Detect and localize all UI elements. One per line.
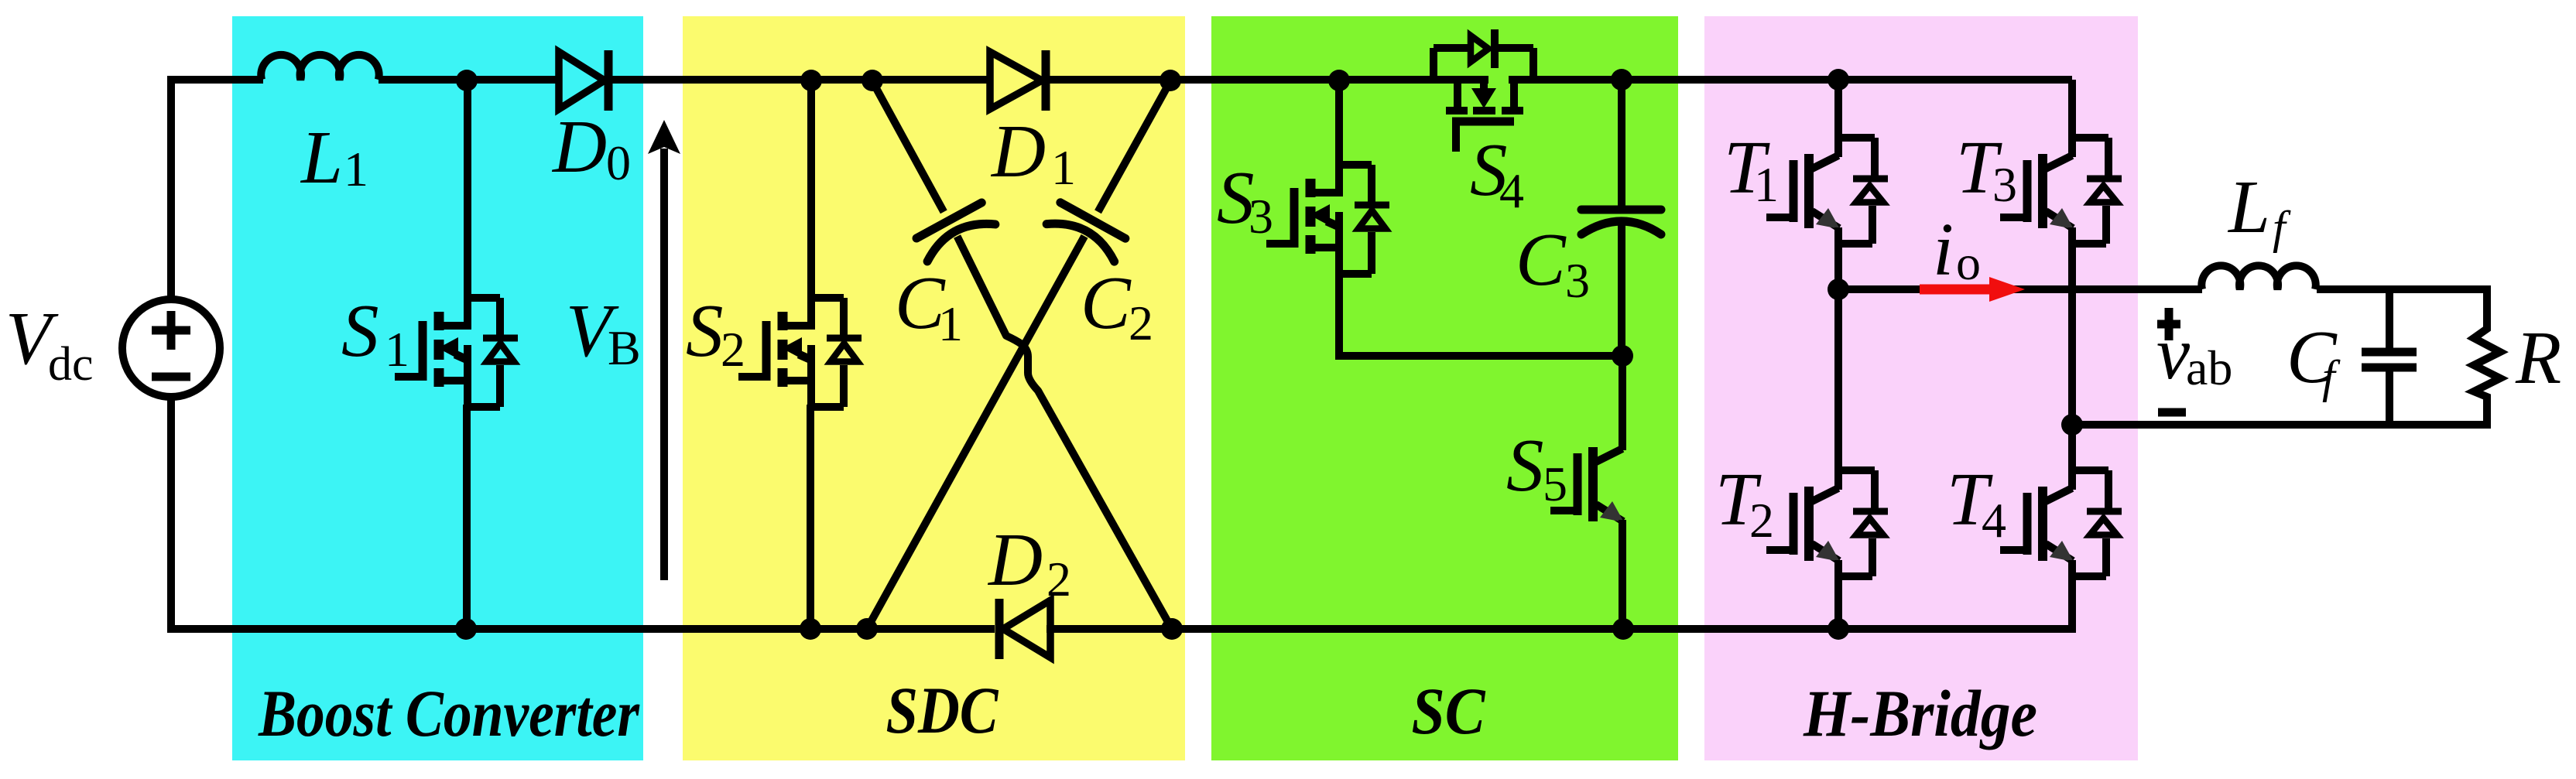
- svg-text:3: 3: [1992, 157, 2017, 212]
- svg-text:i: i: [1933, 208, 1954, 291]
- wire T4 emitter to bottom rail: [2068, 560, 2076, 633]
- svg-text:2: 2: [1046, 552, 1071, 606]
- svg-text:5: 5: [1543, 456, 1567, 511]
- svg-text:dc: dc: [48, 338, 94, 391]
- node dot at C1 top: [862, 70, 883, 91]
- node dot at T2 bottom: [1828, 618, 1849, 640]
- svg-text:2: 2: [721, 322, 745, 377]
- svg-text:B: B: [608, 320, 641, 375]
- svg-text:4: 4: [1982, 493, 2006, 548]
- wire T2 emitter to bottom rail: [1834, 560, 1842, 629]
- S4 bypass right vertical: [1529, 48, 1537, 84]
- svg-text:f: f: [2273, 202, 2291, 253]
- node dot at C3 bottom: [1612, 345, 1633, 367]
- svg-text:D: D: [990, 110, 1046, 193]
- svg-text:S: S: [686, 289, 724, 372]
- transistor T2 (IGBT): [1766, 470, 1888, 576]
- region highlight: Boost Converter (cyan): [232, 16, 643, 760]
- svg-text:C: C: [1081, 261, 1132, 344]
- svg-text:Boost Converter: Boost Converter: [258, 676, 640, 750]
- diode D0: [559, 52, 605, 109]
- wire S1 drain from node: [464, 80, 471, 296]
- svg-text:L: L: [2227, 166, 2270, 248]
- wire bottom rail left of D2: [171, 625, 995, 633]
- wire top rail from L1 to D0: [379, 76, 560, 84]
- region highlight: H-Bridge (pink): [1704, 16, 2138, 760]
- svg-text:R: R: [2515, 316, 2561, 399]
- transistor S5 (IGBT): [1550, 430, 1624, 522]
- node dot at L1/S1 junction: [456, 70, 478, 91]
- region highlight: SC (green): [1211, 16, 1678, 760]
- transistor S3 (MOSFET): [1266, 159, 1389, 274]
- capacitor C1: [915, 202, 995, 261]
- wire left vertical below Vdc: [167, 396, 175, 633]
- wire C3 from top rail: [1618, 80, 1625, 206]
- node dot a (T1/T2 midpoint): [1828, 278, 1849, 300]
- wire top rail from D1 to S4: [1050, 76, 1488, 84]
- wire T1 emitter to node a: [1834, 227, 1842, 293]
- node dot at T1 top: [1828, 69, 1849, 91]
- wire top rail left segment: [171, 76, 263, 84]
- svg-text:C: C: [1516, 218, 1567, 301]
- svg-text:D: D: [551, 105, 607, 188]
- node dot at C2 bottom: [856, 618, 878, 640]
- wire left vertical above Vdc: [167, 76, 175, 300]
- node dot at C2 top: [1160, 70, 1181, 91]
- wire Lf to R corner: [2317, 285, 2491, 293]
- wire T3 emitter to node b: [2068, 227, 2076, 429]
- transistor T1 (IGBT): [1766, 137, 1888, 244]
- node dot at S2 bottom: [800, 618, 821, 640]
- region highlight: SDC (yellow): [683, 16, 1185, 760]
- svg-text:2: 2: [1749, 493, 1774, 548]
- svg-text:f: f: [2322, 351, 2341, 402]
- svg-text:1: 1: [385, 322, 409, 377]
- wire C1 branch upper segment: [872, 81, 944, 212]
- svg-text:0: 0: [606, 135, 631, 190]
- wire C2 branch lower segment: [867, 236, 1084, 629]
- svg-text:L: L: [300, 116, 343, 199]
- svg-text:4: 4: [1499, 163, 1524, 218]
- Vdc minus sign: [152, 373, 190, 381]
- wire S3 source down: [1335, 272, 1343, 360]
- wire S2 drain from node: [807, 80, 815, 296]
- transistor T3 (IGBT): [2000, 137, 2122, 244]
- current arrow io (red): [1920, 285, 1993, 295]
- wire bottom rail right of D2: [1046, 625, 2072, 633]
- S4 body arrow: [1480, 80, 1488, 90]
- svg-text:S: S: [1506, 424, 1544, 507]
- transistor S4 (MOSFET, horizontal) bypass left vertical: [1430, 48, 1437, 84]
- wire T2 collector: [1834, 289, 1842, 472]
- S4 channel stub feet: [1446, 107, 1468, 114]
- wire Cf branch lower: [2386, 371, 2393, 425]
- capacitor C3: [1581, 210, 1661, 234]
- transistor T4 (IGBT): [2000, 470, 2122, 576]
- node dot at S1 bottom: [455, 618, 477, 640]
- svg-text:S: S: [341, 289, 379, 372]
- svg-text:1: 1: [938, 296, 963, 351]
- vab plus sign: [2157, 320, 2180, 329]
- node dot at S5 bottom: [1612, 618, 1634, 640]
- S4 bypass diode: [1471, 36, 1488, 62]
- node dot at C3 top: [1611, 69, 1632, 91]
- wire top rail from D0 to D1: [612, 76, 992, 84]
- node dot at C1/D2 bottom: [1161, 618, 1183, 640]
- transistor S1 (MOSFET): [395, 292, 518, 407]
- wire S3 drain from node: [1335, 80, 1343, 166]
- transistor S2 (MOSFET): [738, 292, 862, 407]
- wire T3 collector: [2068, 80, 2076, 139]
- wire node b to R bottom corner: [2072, 421, 2491, 429]
- wire S3 to C3 bottom node: [1335, 352, 1622, 360]
- S4 right stub connect: [1510, 80, 1518, 107]
- svg-text:3: 3: [1249, 189, 1273, 244]
- svg-text:1: 1: [1051, 140, 1076, 195]
- svg-text:D: D: [987, 518, 1043, 601]
- svg-text:2: 2: [1129, 296, 1153, 350]
- capacitor Cf: [2362, 348, 2417, 357]
- vab minus sign: [2158, 408, 2186, 417]
- inductor L1: [261, 55, 379, 80]
- wire node a to Lf: [1838, 285, 2202, 293]
- arrow VB (boost output voltage): [660, 149, 668, 580]
- node dot b (T3/T4 midpoint): [2061, 414, 2083, 436]
- S4 left stub connect: [1454, 80, 1461, 107]
- svg-text:1: 1: [344, 142, 368, 196]
- wire T1 collector: [1834, 80, 1842, 139]
- wire top rail from S4 to T3: [1509, 76, 2072, 84]
- svg-text:3: 3: [1565, 253, 1590, 308]
- inductor Lf: [2201, 265, 2315, 289]
- S4 gate lead: [1452, 118, 1460, 152]
- svg-text:SDC: SDC: [886, 673, 999, 747]
- node dot at S3 top: [1328, 70, 1350, 91]
- wire S1 source to bottom rail: [463, 405, 471, 629]
- diode D2: [1003, 600, 1050, 658]
- wire Cf branch upper: [2386, 289, 2393, 348]
- wire C1 branch lower segment with crossover hop: [957, 237, 1172, 630]
- wire C2 branch upper segment: [1098, 81, 1171, 212]
- diode D1: [990, 52, 1042, 109]
- S4 gate bar: [1452, 118, 1514, 126]
- resistor R: [2474, 285, 2500, 429]
- node dot at S2 top: [800, 70, 822, 91]
- S4 bypass diode left wire: [1434, 44, 1468, 52]
- capacitor C2: [1046, 202, 1126, 261]
- S4 bypass diode right wire: [1495, 44, 1533, 52]
- wire S5 emitter to bottom rail: [1619, 520, 1626, 629]
- wire C3 to bottom node: [1618, 223, 1625, 356]
- wire T4 collector: [2068, 425, 2076, 472]
- voltage source Vdc circle: [122, 299, 220, 397]
- Vdc plus sign: [152, 326, 190, 335]
- wire S5 collector from node: [1619, 356, 1626, 449]
- svg-text:SC: SC: [1412, 674, 1486, 748]
- svg-text:1: 1: [1754, 157, 1779, 212]
- svg-text:H-Bridge: H-Bridge: [1803, 676, 2037, 750]
- svg-text:ab: ab: [2186, 340, 2232, 395]
- svg-text:o: o: [1956, 235, 1981, 290]
- wire S2 source to bottom rail: [807, 405, 814, 629]
